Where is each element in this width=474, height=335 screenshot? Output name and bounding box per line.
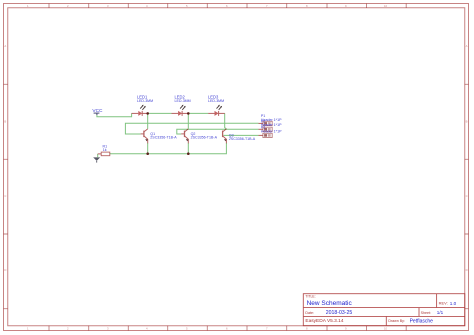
svg-text:TITLE:: TITLE: xyxy=(305,295,315,299)
svg-text:REV:: REV: xyxy=(439,301,448,306)
svg-text:2SC3356-T1B-A: 2SC3356-T1B-A xyxy=(150,136,177,140)
svg-text:VCC: VCC xyxy=(92,108,103,114)
svg-text:D: D xyxy=(4,268,6,272)
svg-text:2SC3356-T1B-A: 2SC3356-T1B-A xyxy=(229,137,256,141)
svg-text:1.0: 1.0 xyxy=(450,301,457,306)
svg-text:Header 1*1P: Header 1*1P xyxy=(261,129,282,133)
svg-text:D: D xyxy=(466,268,468,272)
svg-text:C: C xyxy=(4,194,6,198)
svg-text:Date:: Date: xyxy=(305,311,314,315)
svg-text:2018-03-25: 2018-03-25 xyxy=(326,310,353,316)
svg-text:EasyEDA V5.3.14: EasyEDA V5.3.14 xyxy=(305,318,343,324)
svg-text:A: A xyxy=(4,44,6,48)
svg-text:Drawn By:: Drawn By: xyxy=(388,319,405,323)
svg-text:A: A xyxy=(466,44,468,48)
svg-text:LED-3MM: LED-3MM xyxy=(175,99,191,103)
svg-text:LED-3MM: LED-3MM xyxy=(208,99,224,103)
svg-text:2SC3356-T1B-A: 2SC3356-T1B-A xyxy=(191,136,218,140)
svg-text:10: 10 xyxy=(384,4,388,8)
svg-text:New Schematic: New Schematic xyxy=(307,300,353,307)
svg-text:1/1: 1/1 xyxy=(437,310,444,315)
svg-text:Sheet:: Sheet: xyxy=(421,311,431,315)
svg-text:C: C xyxy=(466,194,468,198)
svg-text:10: 10 xyxy=(384,327,388,331)
svg-text:1k: 1k xyxy=(103,148,107,152)
svg-text:Petflasche: Petflasche xyxy=(410,318,434,324)
svg-text:B: B xyxy=(466,119,468,123)
svg-text:B: B xyxy=(4,119,6,123)
svg-text:LED-3MM: LED-3MM xyxy=(137,99,153,103)
